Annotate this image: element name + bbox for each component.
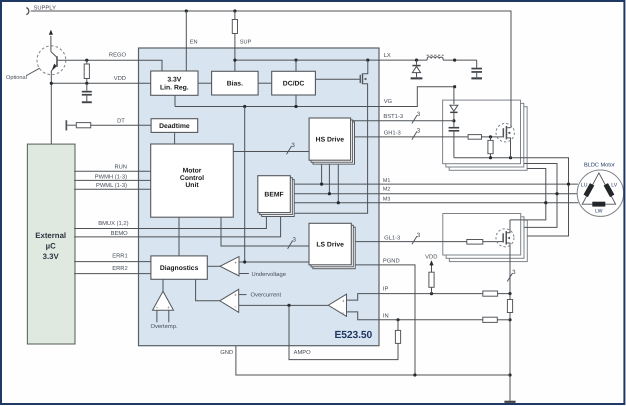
svg-text:3: 3 xyxy=(417,127,421,134)
svg-text:GND: GND xyxy=(220,349,233,356)
svg-text:IN: IN xyxy=(383,313,389,319)
svg-text:DC/DC: DC/DC xyxy=(283,81,305,88)
svg-text:Overtemp.: Overtemp. xyxy=(151,323,178,330)
svg-text:PWML (1-3): PWML (1-3) xyxy=(96,182,127,189)
svg-text:BMUX (1,2): BMUX (1,2) xyxy=(98,220,128,227)
svg-text:+: + xyxy=(234,293,237,298)
svg-text:Lin. Reg.: Lin. Reg. xyxy=(160,84,189,91)
svg-text:Bias.: Bias. xyxy=(227,81,243,88)
svg-text:ERR1: ERR1 xyxy=(112,254,127,260)
svg-text:BLDC Motor: BLDC Motor xyxy=(584,163,615,169)
svg-text:3: 3 xyxy=(417,232,421,239)
svg-text:Undervoltage: Undervoltage xyxy=(252,271,286,278)
svg-text:3: 3 xyxy=(417,111,421,118)
svg-text:3.3V: 3.3V xyxy=(167,77,181,84)
svg-text:VG: VG xyxy=(384,98,393,105)
svg-text:REGO: REGO xyxy=(109,51,127,58)
svg-text:−: − xyxy=(156,305,159,310)
svg-text:3.3V: 3.3V xyxy=(43,252,60,261)
svg-text:LS Drive: LS Drive xyxy=(316,241,344,248)
svg-text:GH1-3: GH1-3 xyxy=(384,129,401,136)
svg-text:DT: DT xyxy=(117,119,125,125)
svg-text:EN: EN xyxy=(190,39,198,45)
svg-text:ERR2: ERR2 xyxy=(112,265,127,272)
svg-text:−: − xyxy=(234,305,237,310)
svg-text:IP: IP xyxy=(383,287,389,293)
svg-text:−: − xyxy=(342,310,345,315)
svg-text:3: 3 xyxy=(292,236,296,243)
svg-text:+: + xyxy=(167,305,170,310)
svg-text:HS Drive: HS Drive xyxy=(316,136,345,143)
svg-text:LX: LX xyxy=(384,53,391,59)
svg-text:VDD: VDD xyxy=(114,76,126,82)
svg-text:AMPO: AMPO xyxy=(294,349,312,356)
svg-text:M2: M2 xyxy=(383,187,391,193)
svg-text:Deadtime: Deadtime xyxy=(159,123,190,130)
svg-text:+: + xyxy=(342,298,345,303)
svg-text:BST1-3: BST1-3 xyxy=(383,113,403,120)
svg-text:LU: LU xyxy=(581,183,588,189)
svg-text:E523.50: E523.50 xyxy=(335,330,373,341)
svg-text:Optional: Optional xyxy=(6,74,27,81)
svg-text:Unit: Unit xyxy=(185,182,199,189)
svg-text:−: − xyxy=(234,272,237,277)
svg-text:M1: M1 xyxy=(383,178,391,184)
svg-text:PWMH (1-3): PWMH (1-3) xyxy=(95,174,127,181)
svg-text:+: + xyxy=(234,260,237,265)
svg-text:M3: M3 xyxy=(383,196,391,202)
svg-text:3: 3 xyxy=(291,142,295,149)
svg-text:Control: Control xyxy=(180,175,204,182)
svg-text:BEMF: BEMF xyxy=(264,192,283,199)
svg-text:GL1-3: GL1-3 xyxy=(384,235,400,242)
svg-text:PGND: PGND xyxy=(383,258,400,265)
svg-text:3: 3 xyxy=(512,269,516,276)
svg-text:Motor: Motor xyxy=(183,168,202,175)
svg-text:BEMO: BEMO xyxy=(111,230,129,237)
svg-text:Overcurrent: Overcurrent xyxy=(251,292,282,299)
svg-text:µC: µC xyxy=(46,242,56,251)
svg-text:LW: LW xyxy=(595,209,602,215)
svg-text:Diagnostics: Diagnostics xyxy=(160,265,199,272)
svg-text:RUN: RUN xyxy=(114,165,127,171)
svg-text:LV: LV xyxy=(611,183,617,189)
svg-text:External: External xyxy=(35,231,66,240)
svg-text:SUPPLY: SUPPLY xyxy=(34,4,57,11)
svg-text:VDD: VDD xyxy=(425,254,437,260)
svg-text:SUP: SUP xyxy=(240,39,252,45)
